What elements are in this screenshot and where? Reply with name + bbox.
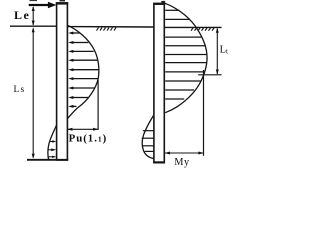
soil pressure bulb B1 (right side of pile P1, curve outline): [68, 25, 99, 118]
tick line at bottom of L1: [198, 74, 221, 76]
extension line from bulb B3 down to My dimension: [203, 70, 205, 156]
arrowhead My right: [198, 152, 203, 155]
dimension line Le (vertical, above ground): [32, 7, 34, 25]
ground hatch marks (right diagram): [191, 28, 214, 31]
ground hatch marks (left diagram): [97, 28, 117, 31]
pile P1 top cap (thick): [56, 2, 68, 4]
ground line (right of pile P2): [165, 26, 222, 28]
dimension line Pu (horizontal): [67, 128, 98, 130]
soil pressure bulb B3 (right side of pile P2, curve outline): [165, 3, 207, 112]
force arrow Hu (thick, pointing right into pile top): [29, 2, 57, 8]
base line under pile P1: [27, 159, 68, 161]
dimension line Ls (vertical, below ground): [32, 29, 34, 158]
toe pressure bulb B2 (left side of pile P1 bottom): [48, 125, 57, 160]
cut-off text remnant above pile P2: [161, 1, 165, 3]
arrowhead L1 bottom (down): [216, 70, 219, 75]
arrowhead Ls top (up): [32, 27, 35, 32]
arrowhead Le bottom (down): [32, 21, 35, 26]
dimension line My (horizontal): [165, 152, 204, 154]
svg-text:My: My: [174, 157, 190, 168]
pile P2 bottom cap (thick): [153, 161, 165, 163]
svg-text:Pu(1.1): Pu(1.1): [69, 133, 108, 145]
svg-text:Ls: Ls: [14, 85, 26, 95]
arrowhead My left: [165, 152, 170, 155]
pile P1 (left pile shaft): [57, 3, 68, 160]
arrowhead Le top (up): [32, 6, 35, 11]
pile P2 top cap (thick): [153, 3, 165, 5]
arrowhead Ls bottom (down): [32, 154, 35, 159]
toe pressure bulb B4 (left side of pile P2 bottom): [142, 116, 153, 159]
arrowhead Pu right: [93, 128, 98, 131]
pressure lines of bulb B3 (plain horizontal hatch): [165, 10, 207, 99]
arrowhead L1 top (up): [216, 28, 219, 33]
svg-text:Le: Le: [14, 8, 30, 22]
dimension line L1 (vertical, right side): [216, 29, 218, 75]
toe bulb B4 hatch lines: [142, 131, 154, 152]
arrowhead Pu left: [67, 128, 72, 131]
toe bulb B2 hatch arrows (pointing right): [47, 140, 56, 158]
cut-off text remnant above force arrow: [30, 0, 38, 1]
cut-off text remnant above pile P1: [60, 0, 66, 1]
ground line (right of pile P1): [68, 26, 154, 28]
ground line (left of pile P1): [10, 25, 56, 27]
pile P2 (right pile shaft): [154, 3, 164, 162]
pressure arrows of bulb B1 (pointing left at pile): [68, 32, 99, 108]
extension line from bulb B1 max width down to Pu dimension: [97, 80, 99, 130]
